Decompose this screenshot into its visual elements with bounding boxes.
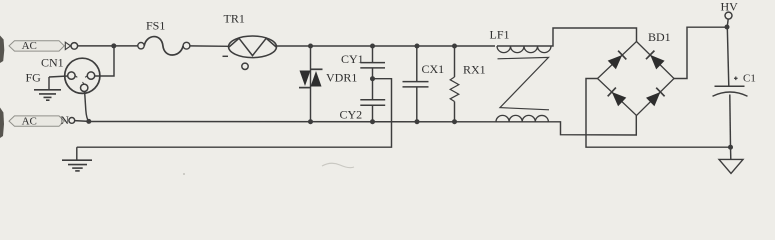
svg-text:RX1: RX1 — [463, 63, 486, 77]
junction dot CX1 bottom — [415, 119, 420, 124]
capacitor CY1 — [341, 46, 385, 79]
junction dot HV — [725, 25, 730, 30]
wire bridge left corner to ground rail — [586, 79, 731, 148]
capacitor CX1 — [403, 46, 445, 122]
wire L: TR1 to LF1 — [277, 45, 496, 47]
ground FG — [34, 77, 61, 100]
junction dot CY1 top — [370, 44, 375, 49]
thermal protector TR1 — [223, 12, 277, 70]
svg-text:CY1: CY1 — [341, 52, 364, 66]
ground (output) — [719, 147, 743, 173]
connector CN1 — [41, 56, 100, 94]
svg-text:N: N — [60, 113, 69, 127]
junction dot ground node — [728, 145, 733, 150]
line filter LF1 — [490, 28, 552, 122]
port AC (line) — [9, 40, 78, 52]
junction dot CX1 top — [415, 44, 420, 49]
capacitor C1 — [713, 27, 756, 147]
svg-text:FS1: FS1 — [146, 19, 165, 33]
svg-text:VDR1: VDR1 — [326, 71, 357, 85]
junction dot VDR1 bottom — [308, 119, 313, 124]
svg-text:CY2: CY2 — [340, 108, 363, 122]
diode BD1 bottom-right — [646, 92, 660, 106]
wire CN1 bottom pin down to N rail junction — [85, 91, 89, 121]
wire N: LF1 to step — [549, 116, 637, 136]
wire L: AC pin to junction — [78, 45, 114, 47]
svg-text:AC: AC — [22, 116, 37, 128]
wire VDR1 branch — [310, 46, 312, 122]
junction dot VDR1 top — [308, 44, 313, 49]
diode BD1 top-right — [650, 55, 664, 70]
junction dot RX1 top — [452, 44, 457, 49]
ground (primary side) — [62, 147, 92, 171]
svg-text:CN1: CN1 — [41, 56, 64, 70]
svg-text:C1: C1 — [743, 73, 756, 85]
wire N rail — [89, 121, 497, 123]
fuse FS1 — [138, 19, 190, 56]
wire L: FS1 to TR1 — [190, 45, 229, 47]
svg-text:TR1: TR1 — [224, 12, 245, 26]
scan artifacts (decorative) — [0, 36, 4, 64]
pin HV — [721, 0, 739, 27]
wire CY midpoint to ground run — [77, 79, 392, 148]
port AC (neutral) — [9, 113, 75, 128]
wire bridge right corner to HV rail — [674, 27, 727, 78]
diode BD1 top-left — [608, 55, 623, 69]
svg-text:CX1: CX1 — [422, 62, 445, 76]
resistor RX1 — [450, 46, 485, 122]
junction dot N rail / CN1 pin — [86, 119, 91, 124]
junction dot RX1 bottom — [452, 119, 457, 124]
capacitor CY2 — [340, 79, 386, 122]
svg-text:AC: AC — [22, 40, 37, 52]
junction dot L rail / CN1 pin riser — [111, 43, 116, 48]
junction dot CY midpoint — [370, 76, 375, 81]
diode BD1 bottom-left — [612, 92, 627, 106]
bridge rectifier BD1 — [598, 30, 675, 116]
wire N pin to junction — [75, 120, 89, 123]
wire L: junction to fuse FS1 — [114, 45, 138, 47]
svg-text:FG: FG — [26, 71, 42, 85]
svg-text:BD1: BD1 — [648, 30, 671, 44]
junction dot CY2 bottom — [370, 119, 375, 124]
wire CN1 right pin to riser — [94, 46, 114, 76]
svg-text:LF1: LF1 — [490, 28, 510, 42]
varistor VDR1 — [299, 69, 357, 87]
wire L: LF1 to bridge top — [551, 28, 637, 46]
wire FG to CN1 left pin — [49, 76, 68, 77]
